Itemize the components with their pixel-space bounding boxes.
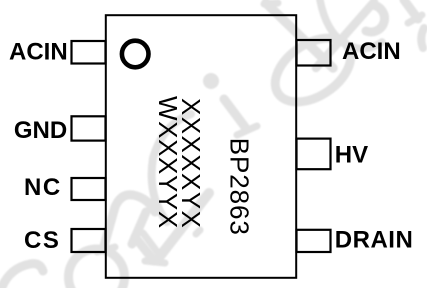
svg-text:XXXXXYX: XXXXXYX <box>176 98 206 229</box>
svg-text:BP2863: BP2863 <box>225 138 255 236</box>
watermark f stroke <box>157 193 209 260</box>
pin CS box <box>72 229 106 252</box>
watermark d ascender stroke <box>266 3 333 68</box>
watermark big J arc <box>320 0 382 49</box>
watermark d bowl ellipse <box>264 25 363 115</box>
package body outline <box>106 15 296 278</box>
watermark letter n arch <box>104 195 155 246</box>
watermark n foot serif left <box>97 247 115 252</box>
svg-text:ACIN: ACIN <box>342 38 401 65</box>
watermark l stroke <box>404 0 418 19</box>
watermark n tail stroke <box>135 237 154 261</box>
watermark right-edge arc <box>421 28 424 48</box>
watermark e loop arc <box>366 5 385 32</box>
pin ACIN left box <box>72 41 106 64</box>
watermark i foot serif <box>237 126 257 135</box>
pin GND box <box>72 116 106 140</box>
pin HV box <box>297 139 331 170</box>
watermark big C arc inside package <box>152 114 191 222</box>
watermark n foot serif right <box>145 261 165 263</box>
watermark l foot serif <box>408 15 422 23</box>
watermark n right leg <box>132 212 146 244</box>
watermark d ascender flag <box>264 3 278 4</box>
watermark crossbar stroke <box>316 2 374 68</box>
watermark letter o ring <box>69 249 125 288</box>
pin DRAIN box <box>297 230 331 252</box>
svg-text:DRAIN: DRAIN <box>335 227 414 254</box>
watermark i stem <box>224 99 245 127</box>
svg-text:HV: HV <box>335 142 368 169</box>
pin 1 indicator circle <box>122 41 149 68</box>
svg-text:NC: NC <box>24 174 62 201</box>
pin ACIN right box <box>297 40 331 66</box>
pin NC box <box>72 178 106 200</box>
svg-text:CS: CS <box>24 227 60 254</box>
watermark i dot <box>203 73 219 89</box>
watermark small mark near f top <box>196 230 200 234</box>
svg-text:ACIN: ACIN <box>9 39 68 66</box>
svg-text:GND: GND <box>14 117 67 144</box>
watermark extra tail stroke <box>143 233 158 253</box>
